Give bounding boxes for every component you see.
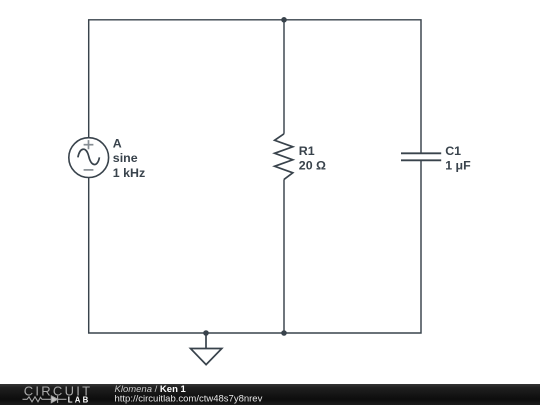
- wire bottom rail: source bottom to bottom-left corner, bottom horizontal, capacitor bottom lead: [89, 160, 421, 333]
- wire resistor top lead: [283, 20, 285, 134]
- svg-text:20 Ω: 20 Ω: [299, 158, 326, 172]
- svg-text:http://circuitlab.com/ctw48s7y: http://circuitlab.com/ctw48s7y8nrev: [115, 394, 263, 405]
- svg-text:A: A: [113, 137, 122, 151]
- svg-text:R1: R1: [299, 144, 315, 158]
- label R1 20 ohm: [299, 144, 326, 172]
- CircuitLab logo zigzag + diode: [23, 396, 67, 403]
- wire resistor bottom lead: [283, 179, 285, 333]
- label C1 1 uF: [445, 144, 471, 172]
- svg-text:LAB: LAB: [68, 396, 91, 405]
- node junction ground: [203, 330, 209, 336]
- svg-text:1 kHz: 1 kHz: [113, 166, 145, 180]
- svg-text:1 μF: 1 μF: [445, 158, 471, 172]
- node junction bottom (resistor/bottom wire): [281, 330, 287, 336]
- resistor R1: [275, 134, 293, 180]
- node junction top (resistor/top wire): [281, 17, 287, 23]
- svg-text:C1: C1: [445, 144, 461, 158]
- ground: [191, 333, 222, 365]
- wire top rail: capacitor top lead, top horizontal, left upper to source top: [89, 20, 421, 154]
- footer bar: [0, 384, 540, 405]
- capacitor C1: [401, 153, 441, 160]
- label source A sine 1 kHz: [113, 137, 145, 180]
- voltage source A (sine): [69, 138, 109, 178]
- svg-text:sine: sine: [113, 151, 138, 165]
